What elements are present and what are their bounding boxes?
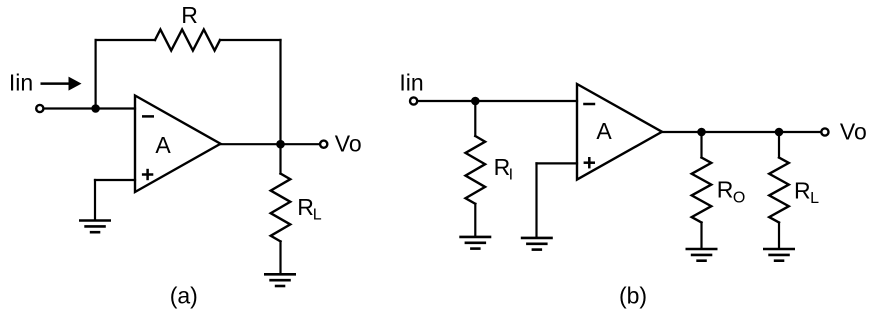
wire plus to ground (b) — [535, 163, 537, 236]
ground (b) plus input — [521, 238, 553, 250]
svg-text:Vo: Vo — [335, 131, 362, 157]
wire RL top (b) — [778, 132, 780, 158]
output terminal Vo (b) — [821, 128, 828, 135]
wire feedback top right — [220, 39, 281, 41]
input terminal (a) — [36, 105, 43, 112]
ground (a) plus input — [79, 221, 111, 233]
svg-text:R: R — [181, 2, 198, 28]
node B1 — [471, 97, 480, 106]
svg-text:(a): (a) — [170, 283, 198, 309]
node A2 output — [276, 140, 285, 149]
wire RO bottom (b) — [700, 223, 702, 248]
plus input symbol (a) — [142, 169, 153, 180]
node B3 — [775, 128, 784, 137]
arrow Iin (a) — [41, 77, 82, 91]
svg-text:Iin: Iin — [399, 69, 423, 95]
resistor R — [155, 30, 220, 51]
wire RI bottom (b) — [474, 204, 476, 236]
wire output (a) — [221, 143, 320, 145]
svg-text:A: A — [596, 118, 612, 144]
plus input symbol (b) — [584, 157, 595, 168]
svg-text:Vo: Vo — [840, 119, 867, 145]
node B2 — [697, 128, 706, 137]
wire RL bottom (a) — [279, 241, 281, 273]
wire RO top (b) — [700, 132, 702, 158]
op-amp A (b) — [577, 84, 662, 180]
wire RL bottom (b) — [778, 223, 780, 248]
svg-text:Iin: Iin — [9, 70, 33, 96]
wire RL top (a) — [279, 144, 281, 173]
resistor RL (a) — [271, 174, 291, 242]
wire plus input (b) — [537, 162, 578, 164]
svg-text:L: L — [313, 206, 322, 223]
minus input symbol (a) — [142, 115, 154, 118]
ground (b) RI — [459, 237, 491, 249]
svg-text:A: A — [155, 132, 171, 158]
resistor RO (b) — [692, 158, 712, 223]
svg-text:R: R — [794, 178, 811, 204]
wire input (b) — [418, 100, 577, 102]
input terminal (b) — [410, 97, 417, 104]
wire plus to ground (a) — [94, 180, 96, 219]
ground (b) RO — [686, 249, 718, 261]
svg-text:L: L — [810, 190, 819, 207]
resistor RI (b) — [466, 136, 486, 204]
label RI (b) — [494, 154, 513, 183]
svg-text:R: R — [297, 194, 314, 220]
label RO (b) — [717, 177, 746, 207]
label RL (b) — [794, 178, 819, 208]
resistor RL (b) — [769, 158, 789, 223]
node A1 — [91, 104, 100, 113]
minus input symbol (b) — [583, 103, 595, 106]
wire feedback left vertical — [94, 40, 96, 109]
wire feedback top left — [96, 39, 155, 41]
wire output (b) — [662, 131, 821, 133]
svg-text:R: R — [717, 177, 734, 203]
wire feedback right vertical — [279, 40, 281, 144]
wire RI top (b) — [474, 101, 476, 136]
svg-text:I: I — [509, 166, 513, 183]
ground (b) RL — [763, 249, 795, 261]
ground (a) RL — [264, 274, 296, 286]
op-amp A (a) — [135, 96, 221, 193]
svg-text:O: O — [733, 189, 745, 206]
label RL (a) — [297, 194, 322, 224]
output terminal Vo (a) — [320, 141, 327, 148]
wire input (a) — [45, 107, 136, 109]
svg-text:(b): (b) — [619, 283, 647, 309]
wire plus input (a) — [95, 179, 135, 181]
